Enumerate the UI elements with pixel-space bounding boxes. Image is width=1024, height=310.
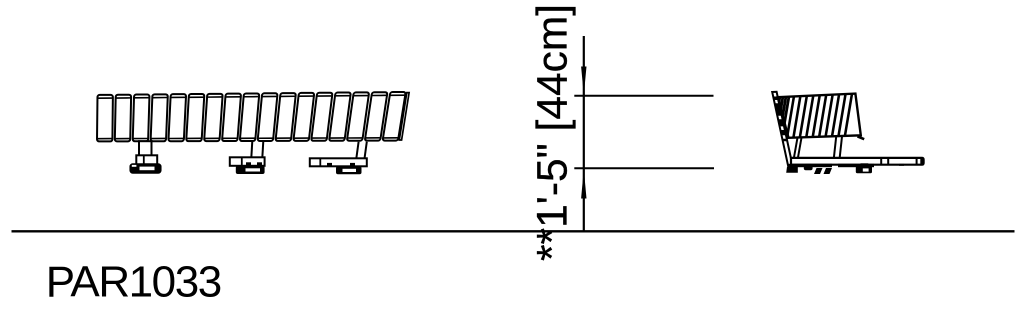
right bench: backrest support struts xyxy=(794,137,798,159)
right bench: seat rail dividers xyxy=(880,158,882,165)
left bench: 17 seat slats xyxy=(97,92,406,141)
right bench: front foot bracket xyxy=(786,167,798,173)
ground line xyxy=(12,230,1015,232)
right bench: backrest bottom rail end tab xyxy=(858,136,865,139)
right bench: small rear bump xyxy=(899,164,904,166)
left bench leg 2: bracket bar xyxy=(230,157,265,166)
left bench leg 3: post xyxy=(356,142,358,159)
left bench leg 3: bracket bar xyxy=(310,158,367,166)
left bench leg 2: base plate xyxy=(236,166,265,174)
dimension: upper arrowhead xyxy=(581,67,586,96)
left bench leg 1: bracket xyxy=(136,155,157,165)
dimension: vertical dimension line xyxy=(583,36,585,231)
dimension: lower extension line xyxy=(574,167,714,169)
right bench: frame strip dark segments with bolt-hole notches xyxy=(774,97,788,142)
svg-text:**1'-5" [44cm]: **1'-5" [44cm] xyxy=(530,4,577,261)
left bench leg 2: post xyxy=(251,141,252,158)
right bench: front leg / end frame strip xyxy=(772,92,794,172)
left bench: end slat side face xyxy=(399,93,409,140)
right bench: angled feet xyxy=(814,168,823,174)
svg-text:PAR1033: PAR1033 xyxy=(46,258,221,307)
right bench: under-rail frame left segment xyxy=(789,164,833,167)
right bench: rear foot with hole xyxy=(861,163,869,167)
right bench: backrest slat lines xyxy=(773,93,853,140)
left bench: slat edge inner lines xyxy=(98,95,405,139)
right bench: under-rail frame right segment xyxy=(838,164,874,167)
dimension: upper extension line xyxy=(574,95,713,97)
left bench leg 3: base plate xyxy=(336,166,362,174)
dimension: lower arrowhead xyxy=(581,169,586,199)
right bench: seat bolt bump xyxy=(804,164,813,170)
right bench: backrest panel xyxy=(778,94,861,138)
left bench leg 1: post xyxy=(139,141,152,157)
left bench leg 1: base plate xyxy=(130,164,161,173)
right bench: seat rail xyxy=(791,158,924,165)
